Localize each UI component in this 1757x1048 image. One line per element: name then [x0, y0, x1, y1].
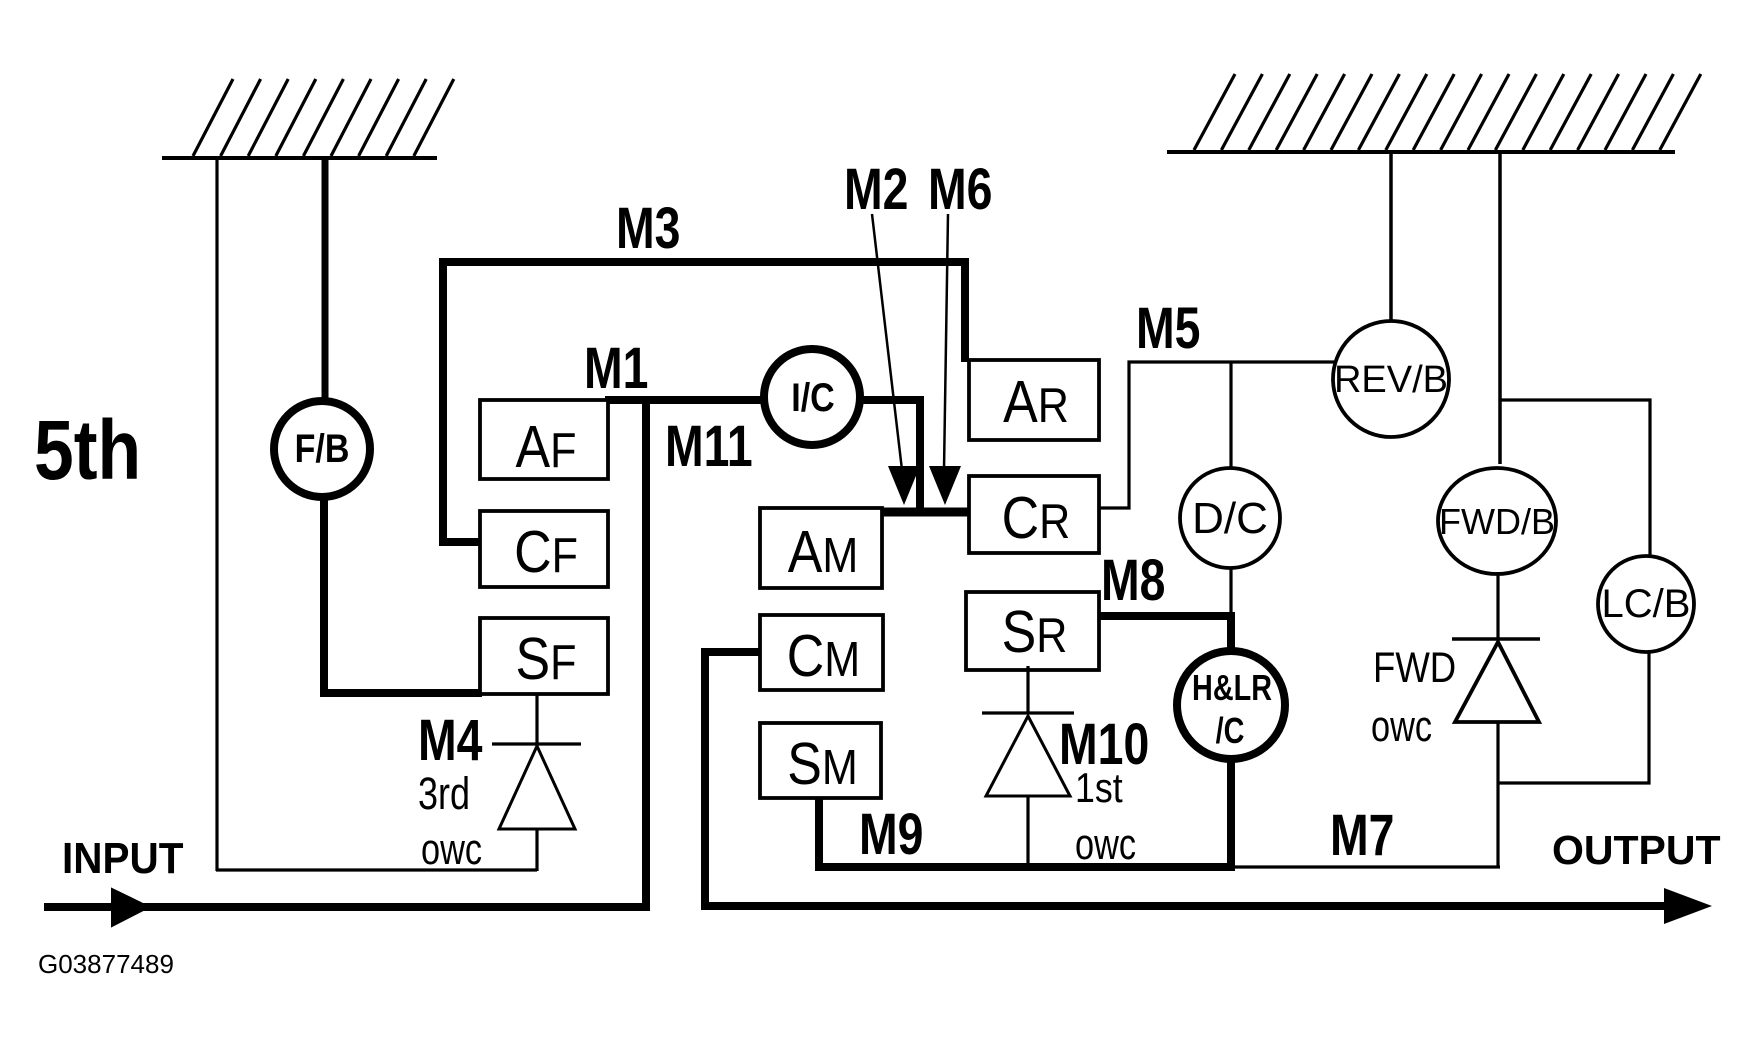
svg-text:M5: M5: [1136, 296, 1200, 361]
svg-text:INPUT: INPUT: [62, 833, 184, 882]
svg-text:LC/B: LC/B: [1602, 582, 1691, 626]
wire: junction stub AM to CR: [877, 508, 969, 517]
clutch H&LR/C: [1177, 651, 1285, 759]
svg-text:M8: M8: [1101, 548, 1165, 613]
clutch element box SR: [966, 592, 1099, 670]
svg-text:M3: M3: [616, 196, 680, 261]
wire M3: [443, 262, 965, 542]
wire M11 / INPUT shaft: [44, 400, 646, 907]
wire: M5 to D/C: [1229, 362, 1232, 470]
svg-text:CF: CF: [514, 519, 578, 585]
svg-text:/C: /C: [1216, 710, 1245, 751]
svg-text:REV/B: REV/B: [1334, 359, 1448, 401]
wire: ground to FWD/B: [1498, 152, 1502, 464]
wire M9: [819, 798, 1231, 867]
svg-text:AF: AF: [516, 414, 577, 480]
svg-text:AM: AM: [788, 519, 859, 585]
wire: D/C to M8 junction: [1229, 568, 1232, 614]
M6 arrowhead: [929, 466, 961, 505]
wire: ground to F/B: [322, 156, 329, 402]
M2 arrowhead: [888, 466, 920, 505]
svg-text:owc: owc: [421, 825, 482, 874]
clutch element box AM: [760, 508, 882, 588]
svg-text:owc: owc: [1371, 702, 1432, 751]
svg-text:3rd: 3rd: [418, 768, 470, 819]
svg-text:CM: CM: [787, 623, 860, 689]
svg-text:M6: M6: [928, 157, 992, 222]
svg-text:SF: SF: [516, 626, 577, 692]
clutch element box AR: [969, 360, 1099, 440]
clutch D/C: [1180, 468, 1280, 568]
svg-text:G03877489: G03877489: [38, 949, 174, 979]
clutch element box AF: [480, 400, 608, 480]
clutch element box SF: [480, 618, 608, 694]
brake FWD/B: [1438, 468, 1556, 574]
wire: ground to REV/B: [1389, 152, 1393, 323]
clutch element box CM: [760, 615, 883, 690]
brake REV/B: [1333, 321, 1449, 437]
wire: F/B to SF: [324, 495, 482, 693]
svg-text:owc: owc: [1075, 820, 1136, 869]
clutch I/C: [764, 349, 860, 445]
svg-text:M7: M7: [1330, 803, 1394, 868]
M6 leader line: [944, 214, 948, 470]
svg-text:SM: SM: [787, 731, 858, 797]
ground (fixed case) right: [1167, 74, 1701, 152]
wire: branch to LC/B top: [1500, 400, 1650, 557]
wire M1: [605, 396, 762, 404]
svg-text:I/C: I/C: [791, 374, 834, 419]
wire: M8 junction to H&LR/C: [1227, 614, 1235, 652]
one-way clutch FWD OWC: [1452, 639, 1540, 868]
wire M5: [1099, 362, 1334, 508]
wire: I/C output to junction: [862, 400, 920, 512]
svg-text:5th: 5th: [34, 402, 141, 497]
svg-text:CR: CR: [1002, 485, 1071, 551]
clutch element box CR: [969, 476, 1099, 553]
svg-text:SR: SR: [1002, 599, 1068, 665]
OUTPUT arrowhead: [1664, 888, 1712, 924]
wire: 3rd owc return line: [216, 868, 537, 871]
M2 leader line: [872, 214, 902, 470]
svg-text:FWD: FWD: [1373, 644, 1456, 691]
ground (fixed case) left: [162, 79, 454, 158]
wire: FWD/B to FWD OWC: [1496, 572, 1499, 640]
svg-text:M2: M2: [844, 157, 908, 222]
INPUT arrowhead: [112, 889, 149, 926]
svg-text:M1: M1: [584, 336, 648, 401]
brake LC/B: [1598, 556, 1694, 652]
one-way clutch M4 3rd OWC: [492, 694, 581, 871]
svg-text:H&LR: H&LR: [1192, 667, 1272, 708]
wire: left case shaft (thin vertical): [215, 156, 218, 871]
svg-text:D/C: D/C: [1192, 494, 1268, 543]
wire: LC/B bottom branch: [1497, 652, 1649, 783]
svg-text:M9: M9: [859, 802, 923, 867]
svg-text:OUTPUT: OUTPUT: [1552, 827, 1721, 873]
svg-text:FWD/B: FWD/B: [1439, 501, 1555, 542]
svg-text:F/B: F/B: [295, 425, 350, 470]
svg-text:1st: 1st: [1075, 765, 1123, 811]
wire: CM to OUTPUT line: [705, 652, 1668, 906]
one-way clutch M10 1st OWC: [982, 666, 1074, 864]
svg-text:AR: AR: [1003, 369, 1069, 435]
wire: H&LR/C down to M9: [1227, 757, 1235, 871]
brake F/B: [274, 401, 370, 497]
svg-text:M4: M4: [418, 708, 482, 773]
clutch element box SM: [760, 723, 881, 798]
svg-text:M11: M11: [665, 414, 753, 479]
clutch element box CF: [480, 511, 608, 587]
wire M7: [1231, 865, 1500, 868]
wire M8: [1099, 612, 1235, 620]
